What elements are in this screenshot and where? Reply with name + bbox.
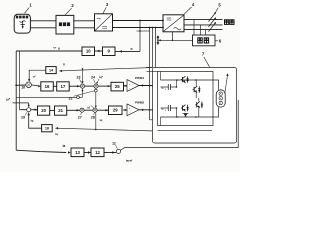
arrow into box 9 from right bbox=[96, 50, 99, 53]
svg-text:11: 11 bbox=[112, 141, 116, 145]
bus tie segment bbox=[137, 30, 150, 32]
wire frame to summing 10 bbox=[16, 84, 26, 86]
wire 19 to 20 bbox=[31, 109, 38, 111]
filter 2 internal squares bbox=[59, 22, 62, 26]
summing circle 27 bbox=[80, 108, 84, 112]
svg-text:-: - bbox=[129, 111, 130, 115]
svg-text:25: 25 bbox=[115, 84, 120, 89]
inner lower line bbox=[158, 130, 213, 132]
vertical bus line 3 bbox=[155, 28, 157, 132]
row A wire bbox=[16, 50, 82, 52]
arrow into box 14 bbox=[59, 70, 62, 72]
vertical 23 to node line bbox=[82, 88, 84, 97]
dot at 28 feedback join bbox=[95, 129, 97, 131]
label 2 leader bbox=[65, 8, 72, 15]
svg-text:PWM1: PWM1 bbox=[135, 76, 144, 80]
dot PWM1 crossing bbox=[152, 85, 154, 87]
dot below 23 bbox=[82, 90, 84, 92]
block 20 bbox=[38, 106, 50, 115]
svg-text:24: 24 bbox=[91, 75, 95, 79]
svg-text:12: 12 bbox=[95, 150, 100, 155]
op-amp PWM2 bbox=[127, 104, 139, 116]
grid text 电网 bbox=[225, 20, 229, 25]
outer converter box 7 bbox=[153, 68, 237, 144]
svg-text:PWM2: PWM2 bbox=[135, 100, 144, 104]
junction dot on monitor wire bbox=[159, 39, 161, 41]
wire 17 to summing 23 bbox=[69, 85, 80, 87]
bidirectional arrow marker bbox=[157, 37, 159, 44]
junction dots on DC link bbox=[139, 20, 141, 22]
svg-text:27: 27 bbox=[78, 115, 82, 119]
feedback node wire bbox=[16, 96, 82, 98]
arrow into 13 bbox=[68, 151, 71, 153]
grid line b bbox=[184, 24, 223, 26]
PWM1 output wire bbox=[139, 85, 158, 87]
filter block 2 bbox=[56, 15, 74, 34]
capacitor C1 bbox=[167, 84, 169, 90]
svg-text:21: 21 bbox=[58, 108, 63, 113]
rectifier 3 diagonal bbox=[95, 14, 112, 30]
breaker switch c bbox=[209, 23, 216, 32]
phase wire to motor top bbox=[205, 80, 219, 90]
svg-text:ω*: ω* bbox=[6, 97, 11, 101]
vertical bus line 1 bbox=[149, 28, 151, 120]
wire 29 to PWM2 bbox=[123, 109, 128, 111]
op-amp PWM1 bbox=[127, 80, 139, 92]
external ref drop bbox=[28, 103, 30, 107]
cap C2 wire bbox=[161, 107, 177, 109]
rectifier 3 AC mark bbox=[97, 17, 101, 20]
C2 riser bbox=[176, 108, 178, 117]
bridge bottom bus dots bbox=[176, 116, 178, 118]
wire summing10 to 16 bbox=[31, 85, 40, 86]
transistor Q3 bbox=[181, 105, 189, 112]
block 10 bbox=[82, 47, 95, 56]
generator 1 terminal squares bbox=[16, 16, 18, 19]
inverter 4 diagonal bbox=[163, 15, 183, 31]
svg-text:17: 17 bbox=[61, 84, 66, 89]
inverter 4 DC mark bbox=[167, 17, 172, 19]
monitor box left wire bbox=[159, 39, 194, 41]
wind generator block 1 (rounded box) bbox=[14, 14, 30, 33]
block 16 bbox=[41, 82, 54, 91]
block 29 bbox=[109, 106, 123, 115]
svg-text:i​q: i​q bbox=[55, 132, 58, 136]
wire 28 to 29 bbox=[97, 109, 108, 111]
arrow into 18 bbox=[55, 127, 58, 129]
inner bridge box bbox=[158, 72, 214, 126]
block 17 bbox=[57, 82, 69, 91]
wire 24 to 25 bbox=[98, 85, 111, 87]
block 18 bbox=[42, 125, 53, 132]
label 3 leader bbox=[103, 7, 106, 13]
wire into box 14 from n line bbox=[59, 68, 152, 71]
grid line c bbox=[184, 29, 223, 31]
inner top stub bbox=[147, 70, 158, 72]
summing circle 19 bbox=[27, 108, 31, 112]
inner corner stub top bbox=[160, 72, 162, 81]
transistor Q1 bbox=[181, 76, 189, 83]
svg-text:16: 16 bbox=[45, 84, 50, 89]
label 19 leader bbox=[25, 112, 27, 115]
block 12 bbox=[91, 148, 104, 157]
svg-text:19: 19 bbox=[21, 116, 25, 120]
svg-text:n: n bbox=[63, 63, 65, 67]
capacitor C2 bbox=[167, 105, 169, 111]
bottom frame wire bbox=[16, 150, 66, 152]
block 21 bbox=[55, 106, 67, 115]
arrow into box 10 bbox=[81, 50, 84, 53]
svg-text:29: 29 bbox=[113, 108, 118, 113]
wire from box 9 to tap bbox=[115, 50, 140, 52]
phase wire to motor bottom bbox=[205, 107, 219, 117]
monitor box text bbox=[198, 38, 202, 43]
wire 10-9 bbox=[95, 50, 103, 52]
label 4 leader bbox=[184, 7, 192, 14]
inverter 4 AC mark bbox=[174, 27, 182, 30]
vertical bus dots bbox=[149, 27, 151, 29]
wire 25 to PWM1 bbox=[124, 85, 128, 87]
cap C1 wire bbox=[161, 86, 177, 88]
svg-text:20: 20 bbox=[41, 108, 46, 113]
wire pair generator to filter bbox=[30, 20, 56, 22]
long wire right riser bbox=[237, 100, 239, 148]
label 6 leader bbox=[215, 40, 218, 42]
inner corner stub bottom bbox=[160, 117, 162, 126]
DC link wires bbox=[112, 20, 163, 22]
bridge top bus bbox=[161, 79, 205, 81]
summing circle 23 bbox=[80, 84, 84, 88]
PWM2 output wire bbox=[139, 109, 158, 111]
diode D1 bbox=[183, 113, 189, 117]
block 9 bbox=[103, 47, 116, 56]
svg-text:u: u bbox=[58, 47, 60, 51]
svg-text:23: 23 bbox=[77, 75, 81, 79]
wire 16-17 bbox=[53, 85, 56, 87]
svg-text:i​q: i​q bbox=[31, 118, 34, 122]
label 22 leader bbox=[74, 91, 95, 97]
summing circle 24 bbox=[94, 84, 98, 88]
wire pair filter to rectifier bbox=[74, 20, 95, 22]
svg-text:13: 13 bbox=[75, 150, 80, 155]
CT to long wire jog bbox=[120, 148, 238, 151]
wire 27-28 bbox=[84, 109, 93, 111]
wire into summing 19 bbox=[20, 109, 27, 111]
svg-text:10: 10 bbox=[21, 86, 25, 90]
summing circle 28 bbox=[93, 108, 97, 112]
wire 23-24 bbox=[85, 85, 94, 87]
sense tap vertical n-wire bbox=[139, 21, 141, 52]
inverter block 4 bbox=[163, 15, 184, 32]
block 25 bbox=[111, 82, 124, 91]
left frame vertical B bbox=[19, 51, 21, 110]
label 7 leader bbox=[204, 57, 210, 67]
svg-text:i​d: i​d bbox=[87, 106, 90, 110]
svg-text:10: 10 bbox=[86, 49, 91, 54]
block 14 bbox=[46, 67, 56, 74]
transistor Q4 bbox=[195, 102, 203, 109]
svg-text:i​aref: i​aref bbox=[126, 159, 132, 163]
svg-text:n: n bbox=[130, 47, 132, 51]
breaker switch b bbox=[209, 18, 216, 27]
grid line a bbox=[184, 19, 223, 21]
wire 14 down to summing 10 bbox=[29, 70, 46, 79]
svg-text:18: 18 bbox=[45, 127, 49, 131]
svg-text:22: 22 bbox=[69, 97, 73, 101]
block 13 bbox=[71, 148, 84, 157]
label 28 leader bbox=[94, 113, 95, 115]
wire 12 to CT bbox=[104, 152, 116, 154]
svg-text:-: - bbox=[129, 86, 130, 90]
label 11 leader bbox=[116, 145, 118, 149]
CT circle 11 bbox=[116, 149, 120, 153]
breaker switch a bbox=[209, 13, 216, 22]
rectifier block 3 bbox=[95, 14, 113, 31]
drop wires to monitor box bbox=[193, 20, 195, 35]
wire 21 to 27 bbox=[67, 109, 80, 111]
node circle 22 bbox=[77, 96, 80, 99]
wire 13-12 bbox=[84, 152, 91, 154]
bridge top bus dots bbox=[176, 79, 178, 81]
C1 riser bbox=[176, 80, 178, 87]
left frame vertical bbox=[15, 51, 17, 150]
svg-text:i​q: i​q bbox=[100, 118, 103, 122]
wire 18 to summing 19 bbox=[29, 112, 42, 128]
feedback wire into 18 bbox=[55, 128, 155, 131]
svg-text:28: 28 bbox=[91, 115, 95, 119]
svg-text:i​a: i​a bbox=[63, 144, 66, 148]
motor side arrow bbox=[225, 75, 228, 94]
transistor Q2 bbox=[193, 86, 201, 93]
motor M (linear machine) bbox=[216, 90, 225, 107]
vertical below 28 bbox=[95, 113, 97, 130]
monitor module box 6 bbox=[193, 35, 216, 46]
label 1 leader bbox=[25, 8, 30, 14]
summing circle 10 bbox=[26, 82, 32, 88]
dot PWM2 crossing bbox=[152, 109, 154, 111]
bridge bottom bus bbox=[161, 116, 205, 118]
label 27 leader bbox=[81, 113, 82, 115]
label 5 leader bbox=[216, 8, 219, 13]
vertical 24-28 link bbox=[95, 88, 97, 108]
rectifier 3 DC mark bbox=[102, 25, 107, 27]
generator 1 internal symbol bbox=[20, 21, 26, 29]
vertical bus line 2 bbox=[152, 28, 154, 68]
wire 20-21 bbox=[50, 109, 55, 111]
vertical into 23 top bbox=[82, 69, 84, 82]
